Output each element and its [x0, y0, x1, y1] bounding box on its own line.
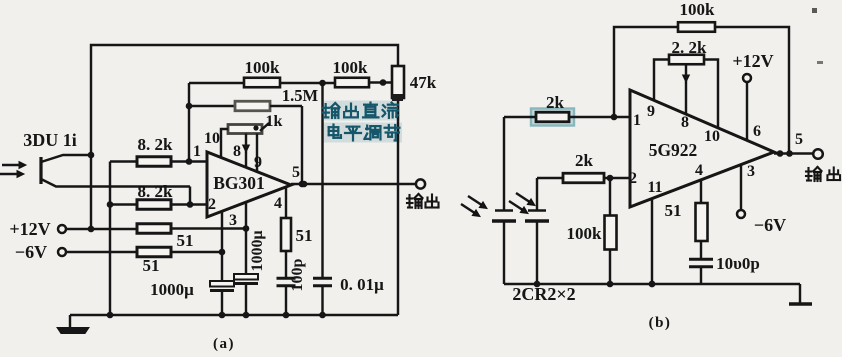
svg-text:2. 2k: 2. 2k: [672, 38, 708, 57]
svg-text:1.5M: 1.5M: [282, 86, 319, 105]
svg-text:8: 8: [681, 114, 689, 131]
svg-text:100k: 100k: [567, 224, 603, 243]
svg-text:+12V: +12V: [732, 51, 773, 71]
svg-text:100k: 100k: [680, 0, 716, 19]
svg-text:−6V: −6V: [15, 242, 47, 262]
svg-text:(a): (a): [213, 336, 235, 352]
svg-text:10: 10: [704, 128, 720, 145]
svg-text:0. 01μ: 0. 01μ: [340, 275, 384, 294]
svg-text:+12V: +12V: [9, 219, 50, 239]
svg-text:2k: 2k: [575, 151, 594, 170]
svg-text:100k: 100k: [245, 58, 281, 77]
svg-text:1k: 1k: [266, 113, 283, 130]
svg-text:2: 2: [208, 196, 216, 213]
svg-text:3DU 1i: 3DU 1i: [23, 130, 77, 150]
svg-text:8. 2k: 8. 2k: [138, 135, 174, 154]
svg-text:51: 51: [296, 226, 313, 245]
svg-text:1000μ: 1000μ: [249, 230, 266, 271]
svg-text:9: 9: [254, 154, 262, 171]
svg-text:10: 10: [204, 130, 220, 147]
svg-text:11: 11: [647, 179, 662, 196]
svg-text:5G922: 5G922: [649, 140, 698, 160]
svg-text:47k: 47k: [410, 73, 437, 92]
svg-text:5: 5: [795, 131, 803, 148]
svg-text:4: 4: [274, 195, 282, 212]
svg-text:2CR2×2: 2CR2×2: [512, 284, 575, 304]
svg-text:100p: 100p: [289, 258, 306, 291]
svg-text:10υ0p: 10υ0p: [716, 254, 760, 273]
svg-text:3: 3: [229, 212, 237, 229]
svg-text:1: 1: [633, 112, 641, 129]
svg-text:51: 51: [177, 231, 194, 250]
svg-text:1000μ: 1000μ: [150, 280, 194, 299]
svg-text:2: 2: [629, 170, 637, 187]
svg-text:5: 5: [292, 164, 300, 181]
svg-text:100k: 100k: [333, 58, 369, 77]
svg-text:8: 8: [233, 143, 241, 160]
svg-text:9: 9: [647, 103, 655, 120]
svg-text:2k: 2k: [546, 93, 565, 112]
svg-text:(b): (b): [649, 315, 672, 331]
svg-text:6: 6: [753, 123, 761, 140]
svg-text:1: 1: [193, 143, 201, 160]
svg-text:51: 51: [143, 256, 160, 275]
svg-text:8. 2k: 8. 2k: [138, 182, 174, 201]
svg-text:−6V: −6V: [754, 215, 786, 235]
svg-text:51: 51: [665, 201, 682, 220]
svg-text:4: 4: [695, 162, 703, 179]
svg-text:BG301: BG301: [213, 173, 265, 193]
svg-text:3: 3: [747, 163, 755, 180]
